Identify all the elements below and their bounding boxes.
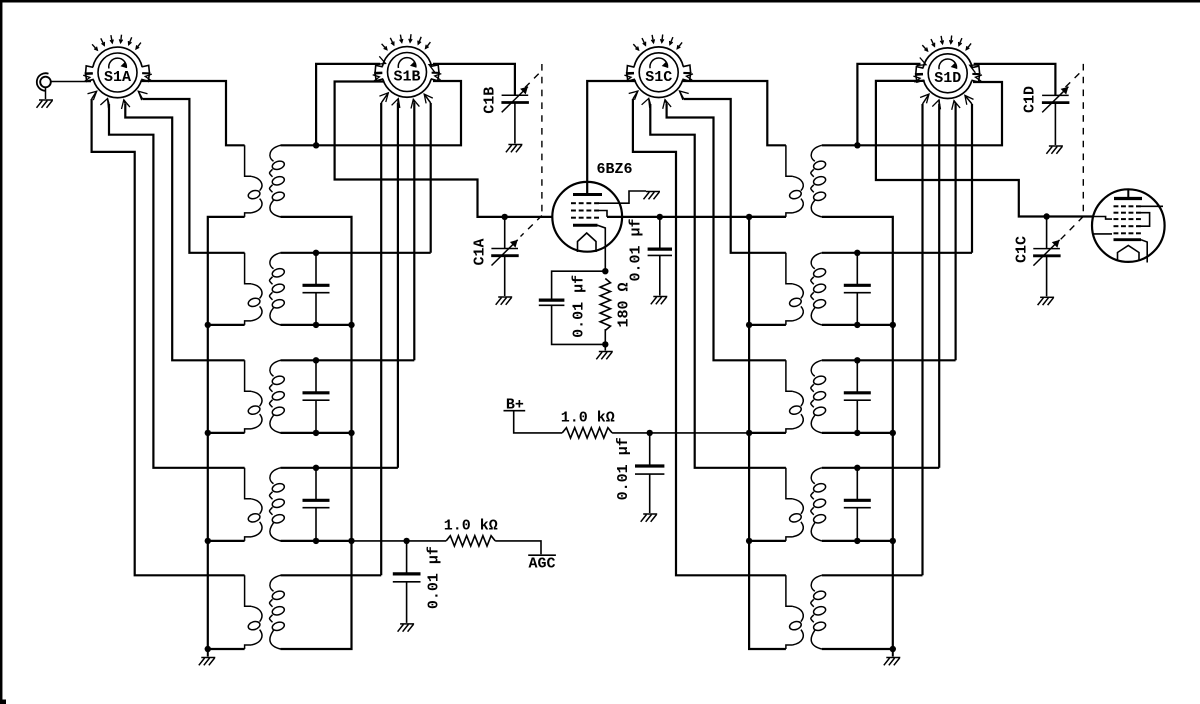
capacitor 0.01 uf AGC <box>393 574 421 582</box>
junction node secondary T6 <box>854 142 860 148</box>
rotary switch S1B <box>373 34 442 97</box>
padder capacitor lead <box>856 468 858 501</box>
V2 grid dashes <box>1114 212 1141 214</box>
6BZ6 grid dashes <box>571 202 599 204</box>
6BZ6 cathode bar <box>573 224 598 227</box>
svg-text:1.0 kΩ: 1.0 kΩ <box>444 518 498 535</box>
wire primary T8 bottom <box>749 432 786 434</box>
svg-text:C1C: C1C <box>1013 236 1030 263</box>
6BZ6 grid dashes <box>571 210 599 212</box>
junction node grid <box>502 214 508 220</box>
transformer T8 (R assembly) <box>786 360 827 433</box>
V2 grid dashes <box>1114 232 1141 234</box>
border top <box>0 0 1200 2</box>
arrow S1B UR <box>429 64 439 72</box>
wire S1D fan to secondary T7 top <box>822 252 972 254</box>
transformer T9 (R assembly) <box>786 468 827 541</box>
wire antenna to ground <box>45 87 47 99</box>
wire S1D wiper to output tube grid <box>876 81 1093 217</box>
wire secondary T4 bottom <box>281 540 352 542</box>
wire primary T4 bottom <box>208 540 245 542</box>
junction primary bus row4 <box>205 538 211 544</box>
padder capacitor row2 <box>303 285 330 292</box>
V2 cathode bar <box>1114 238 1142 241</box>
wire S1B fan to secondary T4 top <box>281 467 398 469</box>
svg-text:S1A: S1A <box>104 69 131 86</box>
svg-text:1.0 kΩ: 1.0 kΩ <box>561 410 615 427</box>
transformer T3 (L assembly) <box>245 360 286 433</box>
wire primary T7 bottom <box>749 324 786 326</box>
capacitor 0.01 uf cathode <box>539 300 565 305</box>
capacitor 0.01 uf screen <box>648 249 672 255</box>
wire S1A to primary T5 <box>88 91 97 100</box>
tube V2 envelope <box>1092 189 1165 262</box>
wire S1A wiper to primary T1 <box>141 81 245 145</box>
arrow S1D UL <box>917 58 927 66</box>
variable capacitor C1B <box>501 87 529 113</box>
junction bus top <box>746 214 752 220</box>
wire secondary T6 top / S1D wiper loop <box>822 82 1002 145</box>
dashed gang line C1B-C1A <box>521 64 542 237</box>
wire resistor to primary bus right <box>612 432 749 434</box>
wire S1B fan to secondary T2 top <box>281 252 431 254</box>
B+ underline <box>504 410 526 412</box>
wire to B+ bypass cap <box>649 433 651 466</box>
transformer T7 (R assembly) <box>786 253 827 325</box>
wire AGC cap to ground <box>406 582 408 623</box>
wire to ground <box>207 649 209 657</box>
wire S1D to C1D <box>974 64 1056 96</box>
wire secondary T1 top / S1B wiper loop <box>281 81 462 145</box>
wire S1D fan to secondary T9 top <box>822 467 939 469</box>
wire B+ to resistor <box>514 411 563 433</box>
rotary switch S1A <box>83 35 152 98</box>
svg-text:C1A: C1A <box>472 238 489 265</box>
wire primary bus right <box>749 217 786 649</box>
wire cathode bypass bottom <box>552 305 606 344</box>
junction node secondary T1 <box>313 142 319 148</box>
V2 plate stub <box>1127 189 1129 198</box>
svg-text:0.01 µf: 0.01 µf <box>570 275 587 338</box>
junction ground bus <box>205 646 211 652</box>
junction secondary bus row2 <box>348 322 354 328</box>
ground 6BZ6 internal <box>644 192 661 200</box>
wire secondary T9 bottom <box>822 540 893 542</box>
junction B+ bypass <box>647 430 653 436</box>
wire S1C wiper to 6BZ6 plate <box>587 81 636 195</box>
antenna connector J1 <box>37 73 51 91</box>
ground cathode <box>596 352 613 360</box>
wire 6BZ6 screen tap <box>599 211 607 217</box>
svg-text:C1D: C1D <box>1021 86 1038 113</box>
wire to ground right <box>892 649 894 657</box>
wire C1D to ground <box>1054 103 1056 145</box>
wire primary T3 bottom <box>208 432 245 434</box>
padder capacitor lead <box>856 360 858 393</box>
svg-text:S1D: S1D <box>934 70 961 87</box>
dashed gang line C1D-C1C <box>1061 64 1084 240</box>
V2 grid dashes <box>1114 218 1141 220</box>
wire primary T2 bottom <box>208 324 245 326</box>
wire secondary bus left <box>281 217 352 649</box>
resistor 1.0 kilohm B+ <box>562 428 612 438</box>
border left <box>0 0 2 704</box>
wire B+ cap to ground <box>649 474 651 513</box>
wire S1B wiper to 6BZ6 grid <box>335 82 553 217</box>
ground C1B <box>506 145 523 153</box>
padder capacitor lead <box>315 468 317 501</box>
junction secondary bus row3 <box>348 430 354 436</box>
ground antenna <box>37 100 54 108</box>
V2 heater <box>1118 246 1140 261</box>
V2 grid5 stub <box>1094 233 1113 235</box>
wire S1C to primary T7 <box>680 91 689 100</box>
wire secondary T3 bottom <box>281 432 352 434</box>
ground C1A <box>496 297 513 305</box>
6BZ6 grid dashes <box>571 217 599 219</box>
resistor 180 ohm <box>600 279 610 331</box>
wire cathode bypass top <box>552 271 606 300</box>
junction cathode <box>602 268 608 274</box>
transformer T6 (R assembly) <box>786 145 827 217</box>
padder capacitor lead <box>315 253 317 285</box>
junction primary bus row3 <box>205 430 211 436</box>
svg-text:AGC: AGC <box>528 556 555 573</box>
wire S1B fan to secondary T5 top <box>281 574 382 576</box>
variable capacitor C1D <box>1042 87 1070 113</box>
ground AGC cap <box>398 624 415 632</box>
AGC overline <box>528 554 556 556</box>
wire S1C to primary T10 <box>629 91 638 100</box>
junction secondary bus right row2 <box>890 322 896 328</box>
padder capacitor lead <box>315 360 317 393</box>
wire to AGC cap <box>406 541 408 574</box>
wire S1C to primary T9 <box>642 98 650 108</box>
transformer T10 (R assembly) <box>786 575 827 649</box>
variable capacitor C1A <box>491 240 519 266</box>
wire grid to C1C <box>1046 217 1048 249</box>
junction primary bus row2 <box>205 322 211 328</box>
wire S1A to primary T2 <box>138 91 147 100</box>
wire resistor to AGC terminal <box>495 541 541 554</box>
V2 grid dashes <box>1114 225 1141 227</box>
transformer T1 (L assembly) <box>245 145 286 217</box>
junction screen bypass <box>657 214 663 220</box>
junction secondary bus row4 <box>348 538 354 544</box>
svg-text:S1C: S1C <box>645 69 672 86</box>
capacitor 0.01 uf B+ <box>635 466 664 474</box>
border bottom-left stub <box>0 700 6 704</box>
wire 6BZ6 screen to T6 primary <box>607 216 786 218</box>
transformer T5 (L assembly) <box>245 575 286 649</box>
svg-text:C1B: C1B <box>481 87 498 114</box>
tube 6BZ6 envelope U1 <box>552 182 622 252</box>
wire secondary T2 bottom <box>281 324 352 326</box>
wire S1B to C1B <box>433 64 515 95</box>
ground C1C <box>1038 297 1055 305</box>
wire primary T5 bottom <box>208 648 245 650</box>
wire row4 bottom to AGC resistor <box>352 540 447 542</box>
ground left assembly <box>199 658 216 666</box>
wire 6BZ6 cathode <box>598 225 606 271</box>
junction secondary bus right row4 <box>890 538 896 544</box>
wire secondary T7 bottom <box>822 324 893 326</box>
wire to ground <box>604 344 606 350</box>
junction AGC cap <box>403 538 409 544</box>
wire S1D fan to secondary T8 top <box>822 359 956 361</box>
svg-text:0.01 µf: 0.01 µf <box>615 437 632 500</box>
padder capacitor row2 <box>844 285 871 292</box>
V2 screen tie <box>1137 213 1150 227</box>
ground right assembly <box>884 658 901 666</box>
ground B+ cap <box>641 514 658 522</box>
6BZ6 plate bar <box>573 193 602 196</box>
wire secondary T8 bottom <box>822 432 893 434</box>
padder capacitor row4 <box>303 500 330 507</box>
V2 grid dashes <box>1114 205 1141 207</box>
wire C1A to ground <box>504 256 506 297</box>
ground screen cap <box>651 297 668 305</box>
wire grid to C1A <box>504 217 506 249</box>
junction output grid <box>1043 213 1049 219</box>
wire C1C to ground <box>1046 256 1048 296</box>
svg-text:0.01 µf: 0.01 µf <box>628 218 645 281</box>
wire to S1D upper-left contact <box>857 64 920 145</box>
wire S1D fan to secondary T10 top <box>822 574 923 576</box>
wire primary T9 bottom <box>749 540 786 542</box>
arrow S1B UL <box>376 56 386 64</box>
junction secondary bus right row3 <box>890 430 896 436</box>
wire to screen bypass cap <box>659 217 661 249</box>
wire to S1B upper-left contact <box>316 64 380 145</box>
wire S1C to primary T8 <box>663 100 671 109</box>
wire C1B to ground <box>514 103 516 144</box>
V2 control grid entry <box>1093 217 1113 220</box>
resistor 1.0 kilohm AGC <box>446 536 495 546</box>
wire screen cap to ground <box>659 255 661 295</box>
rotary switch S1D <box>913 36 982 99</box>
svg-text:180 Ω: 180 Ω <box>616 282 633 327</box>
rotary switch S1C <box>624 35 693 98</box>
V2 plate bar <box>1114 197 1142 200</box>
svg-text:0.01 µf: 0.01 µf <box>426 546 443 609</box>
junction ground right <box>890 646 896 652</box>
junction primary bus right row3 <box>746 430 752 436</box>
junction primary bus right row2 <box>746 322 752 328</box>
V2 grid1 tie <box>1141 205 1164 207</box>
variable capacitor C1C <box>1033 240 1061 266</box>
ground C1D <box>1046 146 1063 154</box>
svg-text:6BZ6: 6BZ6 <box>596 161 632 178</box>
wire primary bus left <box>208 217 245 649</box>
padder capacitor row3 <box>303 393 330 400</box>
junction primary bus right row4 <box>746 538 752 544</box>
wire S1A to primary T3 <box>122 100 130 109</box>
svg-text:S1B: S1B <box>393 69 420 86</box>
wire S1B fan to secondary T3 top <box>281 359 415 361</box>
wire antenna to S1A <box>51 81 91 83</box>
wire secondary bus right <box>822 217 893 649</box>
transformer T2 (L assembly) <box>245 253 286 325</box>
6BZ6 heater <box>578 233 597 252</box>
V2 cathode lead <box>1141 240 1147 263</box>
wire 6BZ6 suppressor to ground <box>599 191 647 203</box>
transformer T4 (L assembly) <box>245 468 286 541</box>
arrow S1D UR <box>970 65 980 73</box>
padder capacitor row3 <box>844 393 871 400</box>
junction cathode resistor bottom <box>602 341 608 347</box>
padder capacitor row4 <box>844 500 871 507</box>
wire S1A to primary T4 <box>100 99 108 109</box>
padder capacitor lead <box>856 253 858 285</box>
wire S1C wiper to primary T6 <box>682 81 786 145</box>
